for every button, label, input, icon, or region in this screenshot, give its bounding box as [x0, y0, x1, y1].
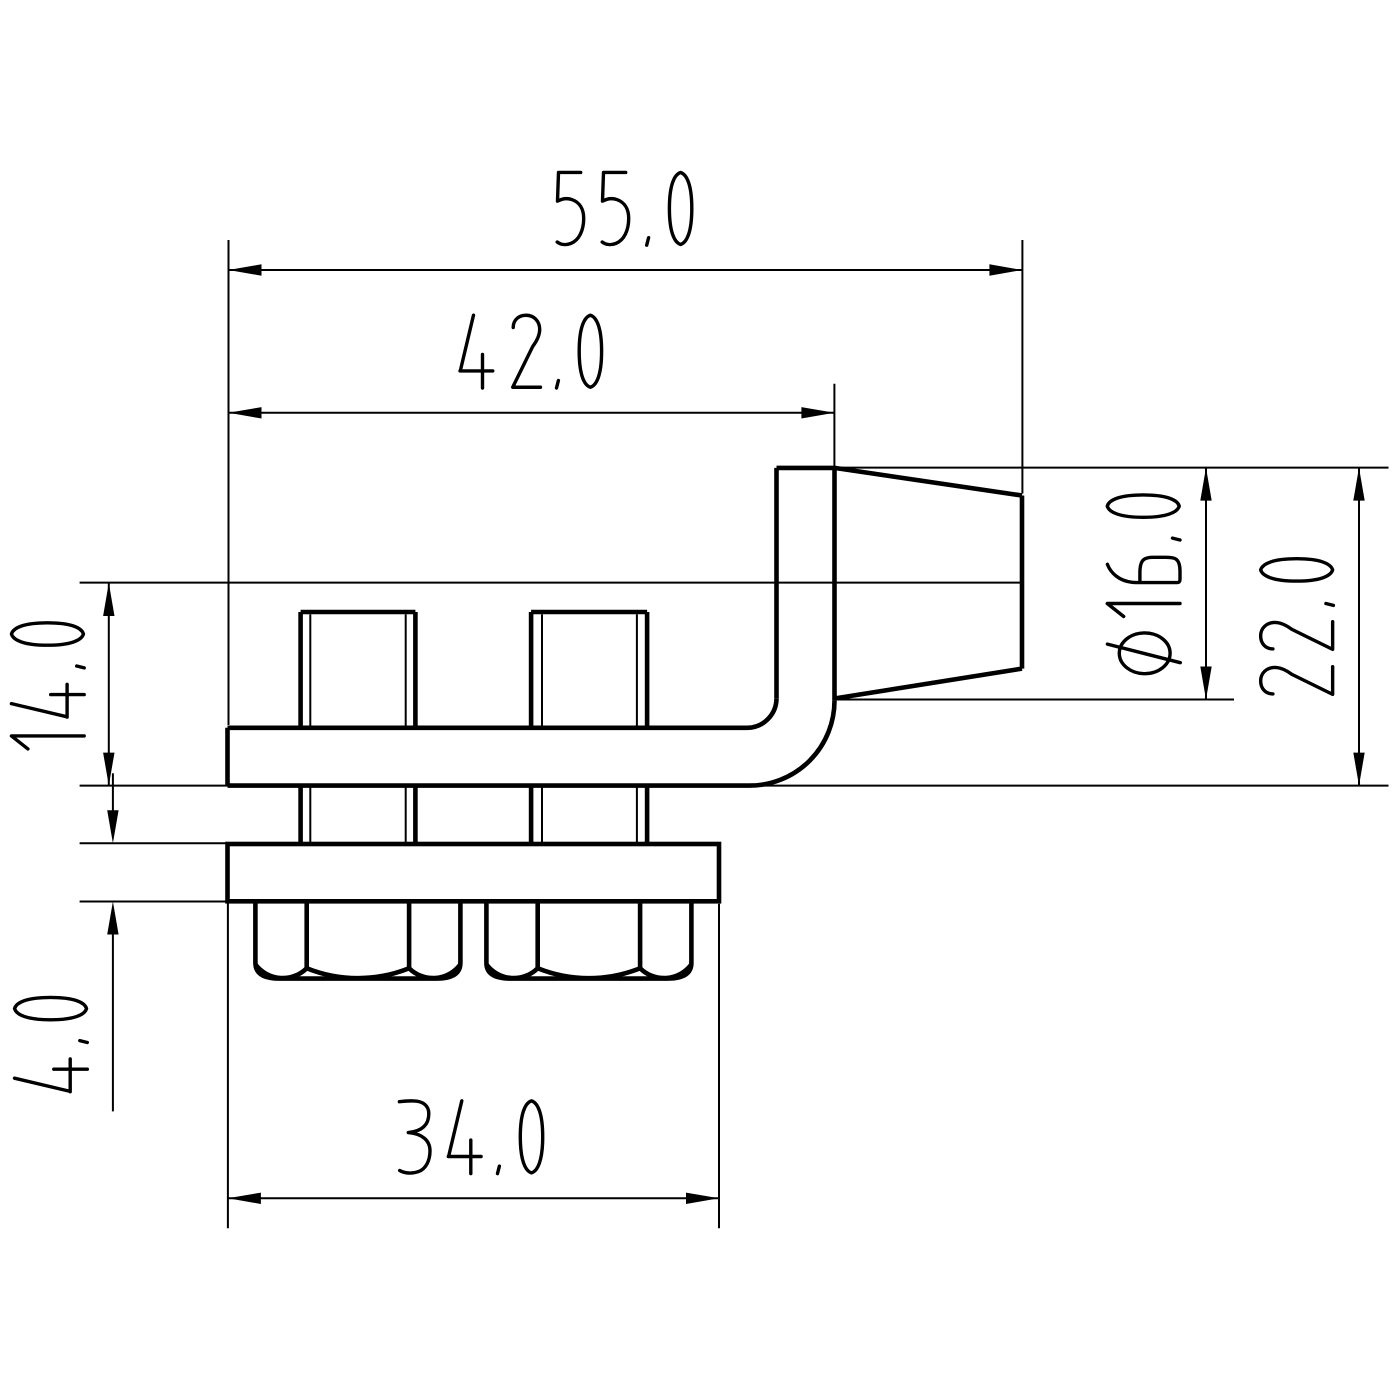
upright top edge	[777, 466, 835, 471]
dimension text 4.0 rotated	[15, 997, 88, 1091]
dimension line 55.0	[229, 269, 1023, 271]
extension line 34 left x=227.9	[227, 901, 229, 1228]
dimension line 4.0 upper tail with down arrow	[112, 773, 114, 812]
dimension text 55.0	[557, 172, 692, 245]
centerline of cone	[80, 582, 1022, 584]
bolt2 hex head	[486, 901, 691, 978]
extension line y=785.2 full width	[80, 785, 1389, 787]
extension line y=699.5 (dia16 bottom)	[835, 699, 1235, 701]
inner fillet of bend r=29.5	[747, 698, 777, 728]
dimension text dia16.0 rotated	[1107, 495, 1180, 674]
extension line left x=228.5	[228, 240, 230, 725]
taper right edge	[1020, 496, 1025, 669]
extension line 34 right x=719	[718, 904, 720, 1229]
extension line of 42 dim x=834.4	[833, 384, 835, 467]
upright left edge	[774, 468, 779, 698]
bolt1 shank below bar	[298, 786, 303, 844]
taper top slant	[835, 468, 1023, 496]
dimension line 42.0	[229, 412, 835, 414]
dimension line 22.0 vertical	[1358, 468, 1360, 786]
outer bend arc r=85	[750, 701, 835, 786]
dimension text 42.0	[460, 315, 602, 388]
bolt2 shank below bar	[529, 786, 534, 844]
bolt2 thread lines above bar	[541, 614, 543, 728]
bar horizontal arm of L	[228, 725, 748, 730]
dimension text 14.0 rotated	[11, 623, 84, 749]
extension line y=467.6 right side	[835, 467, 1389, 469]
bolt1 hex head	[255, 901, 460, 978]
extension line y=843.5 left (plate top)	[80, 842, 228, 844]
bolt1 thread lines above bar	[309, 614, 311, 728]
clamp plate	[228, 844, 720, 901]
dimension text 34.0	[399, 1101, 542, 1174]
taper bottom slant	[835, 669, 1023, 699]
dimension line 4.0 lower tail with up arrow	[112, 933, 114, 1111]
bolt1 shank above bar	[298, 612, 303, 728]
dimension line 34.0	[228, 1197, 719, 1199]
upright right edge / taper left	[832, 468, 837, 701]
dimension text 22.0 rotated	[1261, 559, 1334, 695]
dimension line dia16.0 vertical	[1205, 468, 1207, 700]
extension line right of 55 dim x=1022.4	[1021, 240, 1023, 494]
bolt2 shank above bar	[529, 612, 534, 728]
extension line y=900.5 left (plate bottom)	[80, 901, 228, 903]
dimension line 14.0 vertical	[108, 583, 110, 786]
